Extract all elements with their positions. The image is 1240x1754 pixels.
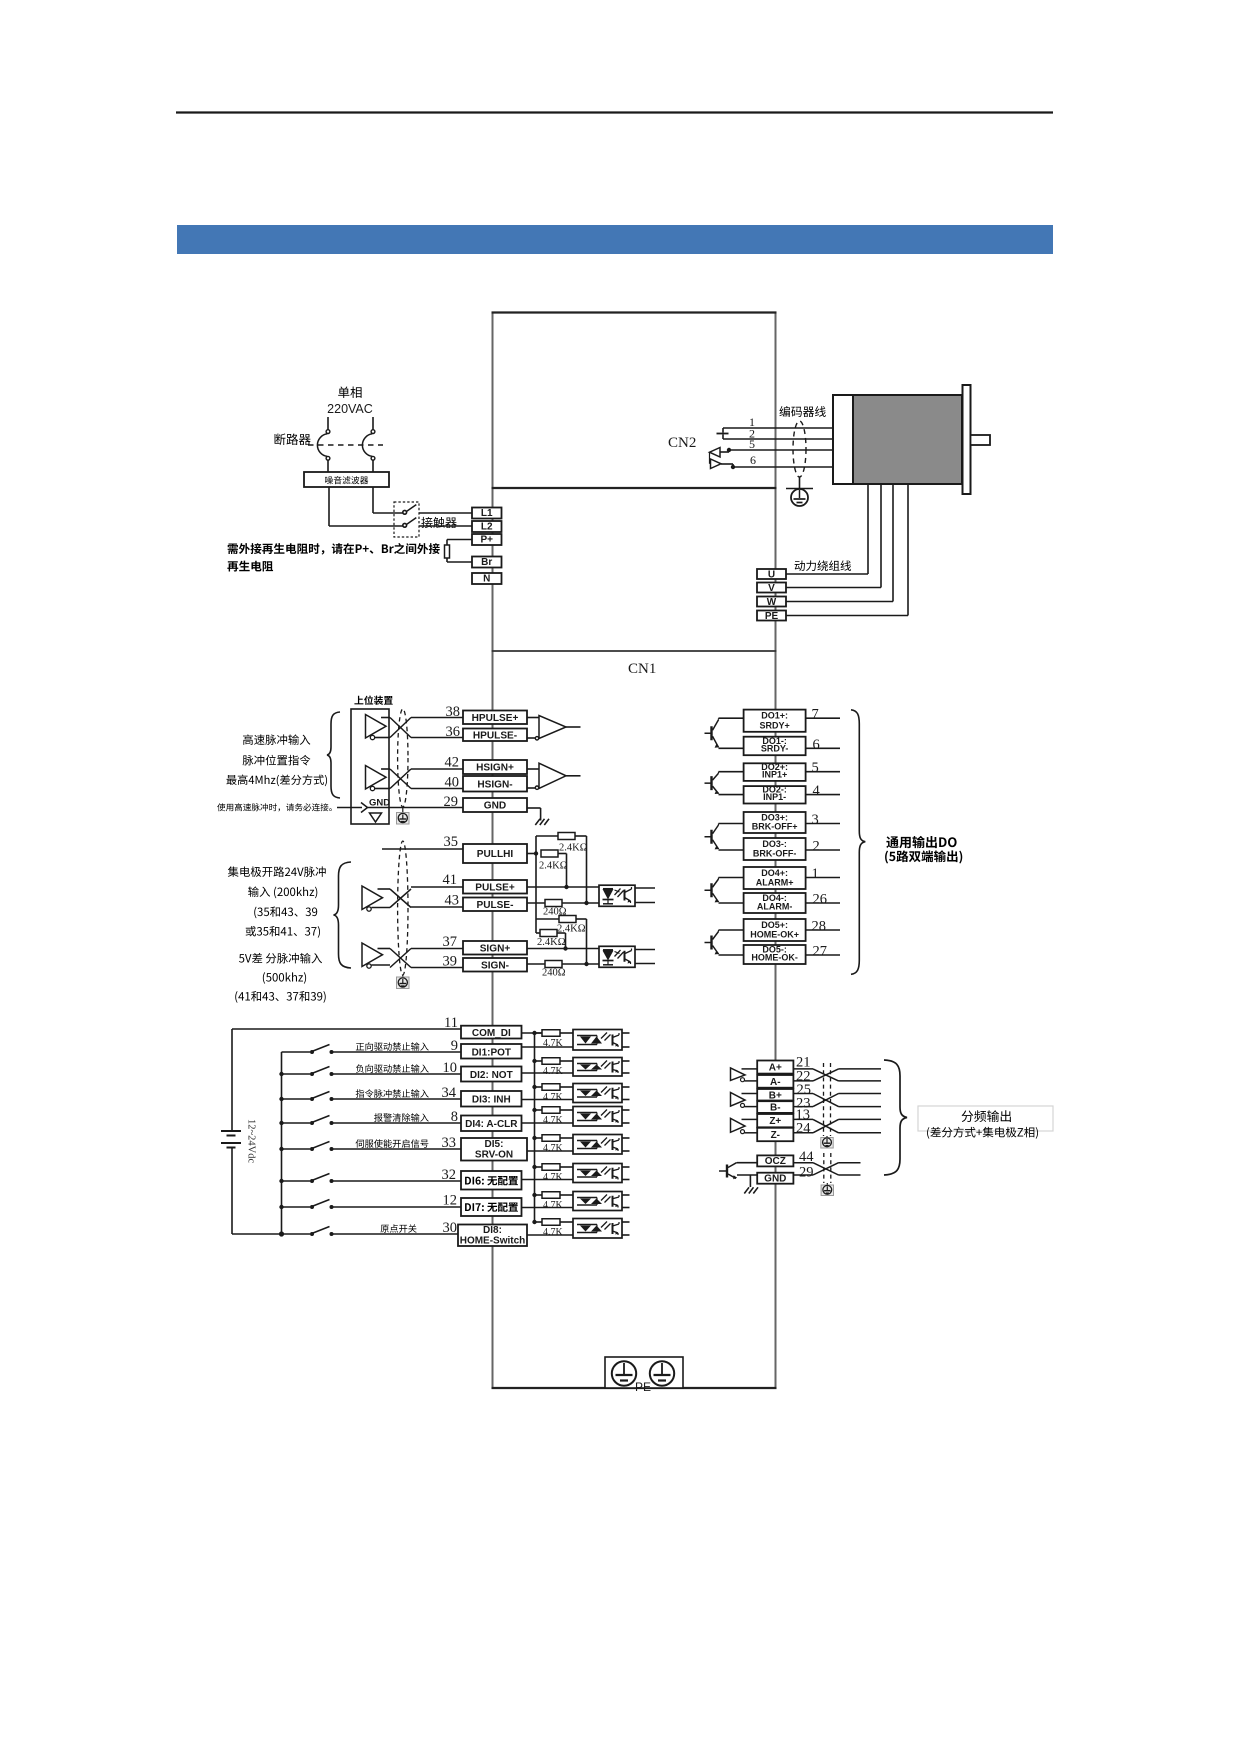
wire resistor to Br: [447, 558, 472, 562]
driver triangle Z: [731, 1118, 758, 1133]
wire collector DO1+: [719, 717, 744, 719]
svg-text:A-: A-: [770, 1077, 781, 1088]
svg-text:34: 34: [442, 1085, 457, 1101]
wire HSIGN- to bubble: [527, 787, 535, 789]
driver triangle B: [731, 1093, 758, 1108]
svg-text:26: 26: [813, 892, 828, 908]
pin number 13: [796, 1107, 811, 1123]
resistor 4.7K and wires row 6: [522, 1164, 574, 1183]
DI inner rail: [281, 1052, 283, 1234]
wire R4 down: [557, 933, 566, 949]
pin DI2: [461, 1067, 522, 1082]
pin number 40: [445, 775, 460, 791]
svg-text:CN1: CN1: [628, 661, 656, 677]
pin number 4: [813, 783, 821, 799]
drive frame left edge: [492, 312, 494, 1388]
svg-text:HPULSE+: HPULSE+: [472, 713, 519, 724]
twisted pair X A+: [793, 1069, 838, 1081]
svg-text:4.7K: 4.7K: [543, 1227, 564, 1238]
PE terminal box: [605, 1357, 683, 1388]
driver U1a: [366, 715, 387, 740]
driver U2a: [362, 886, 383, 911]
wire emitter DO3-: [719, 849, 744, 851]
wire U2b bot out: [372, 964, 391, 966]
brace high-speed block: [327, 712, 340, 798]
pin DO3+: [744, 812, 806, 833]
pin B+: [757, 1089, 793, 1101]
label 或35和41 37: [246, 926, 320, 938]
label 220VAC: [327, 402, 373, 416]
wire emitter to earth: [749, 1175, 751, 1187]
svg-text:9: 9: [451, 1038, 458, 1054]
pin B-: [757, 1101, 793, 1113]
pin number 35: [444, 834, 459, 850]
wire out B+: [839, 1093, 882, 1095]
signal ground triangle: [370, 813, 382, 822]
contactor dashed box: [394, 502, 419, 537]
label 输入200khz: [248, 886, 317, 898]
wire U1b top out: [381, 768, 390, 770]
optocoupler DI row 1: [573, 1030, 630, 1051]
pin number 41: [443, 872, 458, 888]
battery 12-24Vdc: [221, 1131, 241, 1148]
svg-text:HPULSE-: HPULSE-: [473, 730, 517, 741]
label 报警清除输入: [374, 1113, 429, 1122]
svg-text:PE: PE: [765, 611, 779, 622]
pin HSIGN+: [463, 760, 527, 774]
pin number 28: [812, 919, 827, 935]
svg-text:8: 8: [451, 1109, 458, 1125]
pin number 22: [796, 1069, 811, 1085]
svg-text:39: 39: [443, 954, 458, 970]
svg-text:1: 1: [812, 866, 819, 882]
svg-text:5: 5: [812, 760, 819, 776]
pin number 5: [749, 437, 755, 451]
transistor Q1: [705, 718, 720, 748]
pin number 27: [813, 944, 828, 960]
note 需外接再生电阻 line1: [228, 543, 440, 555]
wire U2b top out: [378, 948, 391, 950]
pin SIGN+: [463, 941, 527, 955]
svg-text:V: V: [768, 583, 775, 594]
motor power wire W: [786, 484, 893, 602]
svg-text:Z+: Z+: [769, 1116, 781, 1127]
shield ABZ earth: [821, 1136, 833, 1148]
wire U2a top out: [378, 888, 391, 890]
junction inner rail DI8: [279, 1231, 284, 1236]
CN2 protective earth circle: [791, 489, 808, 506]
breaker linkage dashed: [308, 444, 383, 446]
resistor R2 2.4K: [541, 850, 558, 857]
brace collector block: [334, 862, 352, 968]
svg-text:33: 33: [442, 1135, 457, 1151]
svg-text:DI1:POT: DI1:POT: [472, 1047, 511, 1058]
pin number 37: [443, 934, 458, 950]
wire emitter DO5-: [719, 954, 744, 956]
pin number 29b: [799, 1164, 814, 1180]
optocoupler DI row 8: [573, 1219, 630, 1239]
transistor Q3: [705, 824, 720, 850]
twisted pair X2: [390, 769, 411, 789]
svg-text:U: U: [768, 570, 775, 581]
pin DO5-: [744, 944, 806, 964]
pin number 36: [446, 724, 461, 740]
resistor 4.7K and wires row 7: [522, 1192, 574, 1211]
svg-text:PULSE-: PULSE-: [476, 900, 513, 911]
label 脉冲位置指令: [243, 755, 311, 766]
contactor contact 1: [403, 505, 416, 515]
wire 35 stub: [382, 848, 463, 850]
pin number 26: [813, 892, 828, 908]
shield ellipse pulse pair: [398, 709, 408, 807]
pin number 1: [812, 866, 819, 882]
resistor R6 240: [545, 961, 562, 968]
svg-text:27: 27: [813, 944, 828, 960]
pin number 12: [443, 1193, 458, 1209]
svg-text:5: 5: [749, 437, 755, 451]
encoder wire 2: [723, 438, 833, 440]
terminal W: [757, 597, 786, 609]
receiver A1: [539, 716, 581, 739]
PE earth circle 1: [612, 1361, 636, 1385]
junction R1 PULSE-: [584, 901, 588, 905]
pin PULSE+: [463, 880, 527, 894]
wire 37: [411, 948, 463, 950]
svg-text:4.7K: 4.7K: [543, 1066, 564, 1077]
pin DI8: [458, 1225, 527, 1247]
rail PULLHI common: [535, 836, 537, 933]
svg-text:B+: B+: [769, 1090, 782, 1101]
svg-text:Z-: Z-: [771, 1130, 780, 1141]
label 正向驱动禁止输入: [356, 1042, 429, 1051]
chassis earth at GND: [535, 819, 549, 825]
pin number 5: [812, 760, 819, 776]
label 断路器: [275, 433, 311, 445]
pin number 9: [451, 1038, 458, 1054]
svg-text:2.4KΩ: 2.4KΩ: [537, 937, 566, 948]
svg-text:W: W: [767, 597, 777, 608]
resistor R1 2.4K: [558, 833, 575, 840]
svg-text:12~24Vdc: 12~24Vdc: [246, 1119, 257, 1164]
shield OCZ earth: [821, 1183, 833, 1196]
pin number 39: [443, 954, 458, 970]
optocoupler DI row 3: [573, 1084, 630, 1103]
pin DO3-: [744, 838, 806, 860]
label 差分方式集电极Z相: [927, 1127, 1038, 1139]
svg-text:12: 12: [443, 1193, 458, 1209]
wire to R1: [536, 835, 558, 837]
pin DI7: [461, 1198, 522, 1216]
wire PULLHI to junction: [527, 853, 536, 855]
label 集电极开路24V脉冲: [228, 866, 326, 877]
svg-text:SRDY+: SRDY+: [759, 720, 789, 730]
wire out A+: [839, 1068, 882, 1070]
junction R4 SIGN+: [563, 946, 567, 950]
wire 40: [411, 788, 463, 790]
note 需外接再生电阻 line2: [227, 561, 273, 572]
motor flange: [963, 385, 971, 494]
label PE: [635, 1380, 651, 1394]
drive frame right edge: [775, 312, 777, 1388]
motor shaft: [971, 435, 991, 445]
pin number 2: [813, 839, 820, 855]
optocoupler DI row 5: [573, 1135, 630, 1155]
regen resistor: [445, 545, 450, 558]
wire stub pin 1: [806, 877, 840, 879]
label R2 2.4K: [539, 861, 568, 872]
svg-text:4.7K: 4.7K: [543, 1092, 564, 1103]
wire PULSE+ to opto: [527, 886, 599, 888]
svg-text:35: 35: [444, 834, 459, 850]
svg-text:HSIGN+: HSIGN+: [476, 763, 514, 774]
wire GND to earth: [527, 808, 541, 821]
pin DI4: [461, 1116, 522, 1132]
svg-text:28: 28: [812, 919, 827, 935]
pin number 43: [445, 893, 460, 909]
pin number 21: [796, 1055, 811, 1071]
svg-text:ALARM-: ALARM-: [757, 902, 793, 912]
resistor 4.7K and wires row 2: [522, 1058, 574, 1077]
U4 out top: [635, 949, 655, 951]
pin number 6: [750, 453, 756, 467]
svg-text:240Ω: 240Ω: [542, 968, 566, 979]
drive frame top edge: [492, 311, 777, 313]
wire note to GND: [337, 807, 362, 809]
pin COM_DI: [461, 1026, 522, 1039]
encoder wire 6: [731, 465, 833, 469]
wire R5 to opto: [562, 902, 599, 904]
pin SIGN-: [463, 958, 527, 972]
wire collector OCZ: [737, 1162, 757, 1164]
DI left supply rail top: [232, 1029, 461, 1131]
CN2 driver triangle: [710, 452, 734, 468]
label 5V差分脉冲输入: [239, 953, 322, 964]
svg-text:CN2: CN2: [668, 435, 696, 451]
encoder wire 1: [723, 428, 833, 433]
terminal P+: [472, 534, 502, 546]
wire HPULSE- to bubble: [527, 737, 535, 739]
pin GND44: [757, 1173, 793, 1185]
switch and wire DI3: [279, 1092, 461, 1102]
pin number 38: [446, 704, 461, 720]
noise filter box: [304, 472, 389, 487]
wire SIGN+ to opto: [527, 948, 599, 950]
pin DI1: [461, 1044, 522, 1059]
svg-text:2.4KΩ: 2.4KΩ: [559, 843, 588, 854]
wire stub pin 28: [806, 929, 840, 931]
wire COM_DI to rail: [522, 1032, 542, 1034]
svg-text:GND: GND: [484, 801, 506, 812]
label R4 2.4K: [537, 937, 566, 948]
label 上位装置: [354, 696, 392, 705]
breaker pole 2: [362, 417, 374, 472]
label CN1: [628, 661, 656, 677]
svg-text:BRK-OFF+: BRK-OFF+: [752, 822, 798, 832]
svg-text:36: 36: [446, 724, 461, 740]
wire U1a top out: [381, 717, 390, 719]
svg-text:PE: PE: [635, 1380, 651, 1394]
wire collector DO2+: [719, 771, 744, 773]
svg-text:24: 24: [796, 1120, 811, 1136]
transistor Q4: [705, 878, 720, 903]
svg-text:L1: L1: [481, 508, 493, 519]
switch and wire DI8: [282, 1227, 462, 1237]
shield 1 earth: [397, 813, 410, 825]
wire U2a bot out: [372, 907, 391, 909]
svg-text:DI5:: DI5:: [485, 1139, 504, 1150]
label 41和43 37和39: [235, 991, 325, 1003]
top horizontal rule: [176, 111, 1053, 113]
pin number 1: [749, 415, 755, 429]
pin DO4+: [744, 867, 806, 889]
svg-text:HOME-OK+: HOME-OK+: [750, 930, 799, 940]
shield bar pins 1-2: [717, 434, 729, 440]
svg-text:SIGN+: SIGN+: [480, 943, 511, 954]
svg-text:HSIGN-: HSIGN-: [477, 779, 512, 790]
label 5路双端输出: [885, 850, 962, 863]
drive frame divider CN1: [492, 650, 777, 652]
pin number 2: [749, 427, 755, 441]
wire collector DO3+: [719, 823, 744, 825]
pin DO5+: [744, 919, 806, 941]
wire out B-: [839, 1106, 882, 1108]
note 使用高速脉冲时: [217, 803, 332, 811]
wire emitter DO2-: [719, 794, 744, 796]
label CN2: [668, 435, 696, 451]
pin number 7: [812, 707, 819, 723]
switch and wire DI1: [282, 1045, 462, 1055]
wire out Z-: [839, 1132, 882, 1134]
resistor 4.7K and wires row 4: [522, 1107, 574, 1126]
wire HPULSE+ to receiver: [527, 717, 539, 719]
svg-text:41: 41: [443, 872, 458, 888]
label 伺服使能开启信号: [356, 1139, 429, 1148]
svg-text:10: 10: [443, 1060, 458, 1076]
svg-text:DO1+:: DO1+:: [761, 711, 788, 721]
drive frame bottom edge: [492, 1387, 777, 1389]
optocoupler U4 sign: [599, 946, 635, 967]
pin number 29: [444, 794, 459, 810]
label 原点开关: [381, 1224, 417, 1233]
pin number 10: [443, 1060, 458, 1076]
shield dashed pair ABZ: [824, 1063, 831, 1136]
pin OCZ: [757, 1155, 793, 1167]
pin DI5: [461, 1138, 527, 1161]
svg-text:ALARM+: ALARM+: [756, 878, 794, 888]
receiver bubble 2: [535, 786, 538, 789]
twisted pair X3: [390, 889, 411, 908]
pin number 23: [796, 1096, 811, 1112]
svg-text:29: 29: [444, 794, 459, 810]
svg-text:DO5+:: DO5+:: [761, 920, 788, 930]
contactor contact 2: [403, 518, 416, 528]
resistor 4.7K and wires row 5: [527, 1135, 573, 1154]
svg-text:43: 43: [445, 893, 460, 909]
label R5 240: [543, 907, 567, 918]
wire stub pin 7: [806, 717, 840, 719]
chassis earth Q6: [744, 1187, 758, 1193]
wire filter to contactor upper: [373, 487, 403, 513]
twisted pair X B+: [793, 1094, 838, 1107]
driver U2b: [362, 943, 383, 968]
svg-text:DI2: NOT: DI2: NOT: [470, 1070, 513, 1081]
svg-text:P+: P+: [480, 535, 493, 546]
svg-text:INP1-: INP1-: [763, 792, 786, 802]
wire out A-: [839, 1080, 882, 1082]
wire out GNDZ: [839, 1174, 861, 1176]
terminal L1: [472, 508, 502, 520]
wire R2 down: [558, 854, 567, 888]
svg-text:11: 11: [444, 1015, 458, 1031]
wire HSIGN+ to receiver: [527, 768, 539, 770]
wire R3 down: [576, 919, 587, 964]
svg-text:4.7K: 4.7K: [543, 1143, 564, 1154]
wire U1b bot out: [375, 788, 391, 790]
drive frame divider below CN2: [492, 487, 777, 489]
pin number 25: [797, 1082, 812, 1098]
svg-text:L2: L2: [481, 522, 493, 533]
svg-text:DI8:: DI8:: [483, 1225, 502, 1236]
junction R2 PULSE+: [564, 885, 568, 889]
breaker pole 1: [317, 417, 329, 472]
svg-text:BRK-OFF-: BRK-OFF-: [753, 849, 797, 859]
junction R3 SIGN-: [584, 962, 588, 966]
wire P+ to resistor: [447, 540, 472, 546]
wire contactor to L1: [419, 512, 472, 514]
svg-text:4.7K: 4.7K: [543, 1200, 564, 1211]
wire stub pin 26: [806, 902, 840, 904]
svg-text:DI3: INH: DI3: INH: [472, 1095, 511, 1106]
wire rail to R3: [536, 918, 559, 920]
svg-text:4: 4: [813, 783, 821, 799]
pin PULSE-: [463, 898, 527, 912]
driver U1b: [366, 766, 387, 791]
twisted pair X4: [390, 949, 411, 968]
wire 29 gnd: [368, 807, 464, 809]
shield ellipse 2: [398, 841, 408, 975]
label R1 2.4K: [559, 843, 588, 854]
wire stub pin 3: [806, 823, 840, 825]
pin DO1-: [744, 736, 806, 755]
label 500khz: [263, 972, 306, 984]
svg-text:32: 32: [442, 1167, 457, 1183]
svg-text:42: 42: [445, 755, 460, 771]
svg-text:DO3-:: DO3-:: [762, 839, 787, 849]
wire SIGN- from box: [527, 963, 545, 965]
transistor Q2: [705, 772, 720, 794]
twisted pair X1: [390, 718, 411, 738]
terminal Br: [472, 557, 502, 569]
label 负向驱动禁止输入: [356, 1064, 429, 1073]
label 2.4K R3: [557, 924, 586, 935]
motor power wire U: [786, 484, 868, 574]
wire 41: [411, 886, 463, 888]
svg-text:GND: GND: [764, 1174, 786, 1185]
pin number 3: [812, 812, 819, 828]
pin A-: [757, 1075, 793, 1088]
optocoupler DI row 7: [573, 1192, 630, 1211]
pin DI3: [461, 1091, 522, 1107]
svg-text:SRV-ON: SRV-ON: [475, 1150, 513, 1161]
pin number 34: [442, 1085, 457, 1101]
svg-text:HOME-OK-: HOME-OK-: [751, 953, 798, 963]
wire 39: [411, 967, 463, 969]
label 指令脉冲禁止输入: [356, 1089, 429, 1098]
faint text frame: [918, 1106, 1053, 1131]
svg-text:B-: B-: [770, 1103, 781, 1114]
svg-text:2.4KΩ: 2.4KΩ: [539, 861, 568, 872]
pin HPULSE-: [463, 729, 527, 742]
